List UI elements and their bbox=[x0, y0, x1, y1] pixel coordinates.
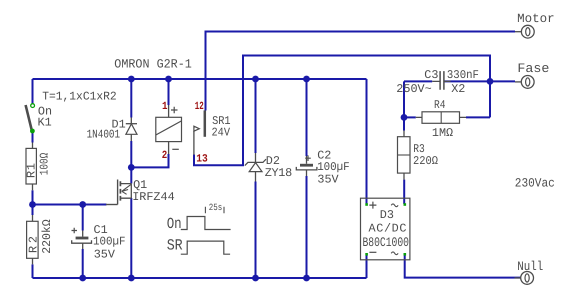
wire R4 node down to R3 top bbox=[403, 117, 405, 130]
svg-text:AC/DC: AC/DC bbox=[369, 221, 407, 235]
svg-text:On: On bbox=[167, 215, 182, 233]
wire C3 corner down to R4 node bbox=[403, 81, 405, 117]
waveform 25s ticks bbox=[205, 207, 224, 214]
wire fase net from SR1 pin13 bbox=[194, 56, 490, 166]
wire ground bus up to D3 minus pin bbox=[366, 254, 368, 278]
svg-text:1N4001: 1N4001 bbox=[87, 128, 121, 142]
resistor R2 bbox=[27, 215, 55, 264]
wire switch K1 to R1 bbox=[32, 133, 34, 143]
pin marker D3 ac2 bbox=[404, 253, 407, 256]
wire C2 bottom branch bbox=[306, 176, 308, 278]
svg-text:K1: K1 bbox=[38, 115, 52, 129]
svg-text:35V: 35V bbox=[317, 173, 339, 187]
junction bus D1 bbox=[128, 76, 135, 83]
zener diode D2 bbox=[245, 153, 266, 182]
svg-text:B80C1000: B80C1000 bbox=[363, 235, 410, 250]
wire R4 right to riser bbox=[466, 116, 490, 118]
wire R4 node to R4 left bbox=[404, 116, 416, 118]
wire +24V bus down to D3 plus pin bbox=[366, 79, 368, 204]
pin marker D3 plus bbox=[365, 203, 368, 206]
junction fase R4 riser bbox=[487, 78, 494, 85]
relay contact SR1 bbox=[194, 110, 205, 154]
diode D1 bbox=[126, 118, 137, 142]
svg-text:T=1,1xC1xR2: T=1,1xC1xR2 bbox=[42, 90, 117, 104]
wire D1 cathode branch bbox=[130, 79, 132, 118]
switch K1 bbox=[26, 104, 35, 134]
svg-text:100Ω: 100Ω bbox=[38, 153, 52, 176]
wire D1 anode to drain node bbox=[130, 141, 132, 167]
wire drain node to relay pin2 bbox=[131, 154, 168, 167]
junction ground Q1 source bbox=[128, 275, 135, 282]
relay coil bbox=[156, 105, 182, 154]
wire C3 left to corner bbox=[404, 80, 432, 82]
junction bus D2 bbox=[252, 76, 259, 83]
junction drain node bbox=[128, 164, 135, 171]
wire node RC row to Q1 gate bbox=[33, 204, 107, 206]
junction node R1 R2 bbox=[29, 201, 36, 208]
wire R2 bottom to ground bus bbox=[32, 264, 34, 278]
svg-text:D3: D3 bbox=[380, 208, 394, 222]
svg-text:250V~: 250V~ bbox=[396, 82, 431, 96]
capacitor C2 bbox=[296, 155, 317, 176]
svg-text:35V: 35V bbox=[94, 247, 116, 261]
connector Fase bbox=[515, 76, 534, 89]
svg-text:1MΩ: 1MΩ bbox=[432, 126, 453, 140]
svg-text:2: 2 bbox=[162, 150, 168, 162]
svg-text:12: 12 bbox=[195, 101, 204, 113]
svg-text:25s: 25s bbox=[209, 202, 223, 213]
svg-text:C3: C3 bbox=[424, 68, 438, 82]
wire +24V feed to switch K1 bbox=[32, 79, 34, 104]
svg-text:OMRON G2R-1: OMRON G2R-1 bbox=[114, 58, 192, 72]
connector Motor bbox=[515, 25, 534, 38]
wire R2 top bbox=[32, 205, 34, 216]
svg-text:SR: SR bbox=[167, 237, 183, 255]
waveform SR trace bbox=[181, 241, 230, 254]
wire +24V bus bbox=[33, 78, 367, 80]
svg-text:230Vac: 230Vac bbox=[515, 176, 555, 190]
svg-text:Null: Null bbox=[517, 259, 543, 274]
svg-text:220kΩ: 220kΩ bbox=[40, 219, 54, 254]
wire C1 top branch bbox=[82, 205, 84, 231]
junction ground C1 bbox=[79, 275, 86, 282]
svg-text:220Ω: 220Ω bbox=[413, 154, 438, 168]
resistor R4 bbox=[416, 112, 466, 124]
pin marker D3 ac1 bbox=[404, 203, 407, 206]
wire ground bus bbox=[33, 277, 367, 279]
svg-text:1: 1 bbox=[162, 101, 168, 113]
wire D3 ac2 pin to Null connector bbox=[405, 254, 521, 278]
waveform On trace bbox=[181, 217, 231, 230]
svg-text:Motor: Motor bbox=[517, 12, 555, 26]
svg-text:330nF: 330nF bbox=[447, 68, 479, 82]
junction ground C2 bbox=[303, 275, 310, 282]
wire R3 bottom into D3 bbox=[403, 180, 405, 204]
wire D2 anode branch bbox=[255, 182, 257, 279]
junction ground D2 bbox=[252, 275, 259, 282]
junction node C1 gate bbox=[79, 201, 86, 208]
svg-text:ZY18: ZY18 bbox=[265, 166, 293, 180]
svg-text:R1: R1 bbox=[25, 163, 39, 178]
svg-text:IRFZ44: IRFZ44 bbox=[132, 190, 174, 204]
wire relay pin1 from bus bbox=[168, 79, 170, 105]
wire motor net from SR1 pin12 bbox=[206, 32, 516, 111]
bridge rectifier D3 bbox=[361, 198, 410, 260]
capacitor C1 bbox=[72, 228, 92, 249]
junction bus relay pin1 bbox=[165, 76, 172, 83]
resistor R3 bbox=[398, 131, 411, 180]
svg-text:R4: R4 bbox=[434, 98, 446, 112]
junction bus C2 bbox=[303, 76, 310, 83]
resistor R1 bbox=[25, 143, 52, 191]
svg-text:X2: X2 bbox=[451, 82, 465, 96]
wire Q1 source to ground bus bbox=[130, 198, 132, 278]
svg-text:13: 13 bbox=[196, 153, 208, 165]
svg-text:24V: 24V bbox=[212, 125, 231, 139]
wire R1 bottom to node RC bbox=[32, 190, 34, 204]
wire Q1 drain bbox=[130, 167, 132, 183]
svg-text:Fase: Fase bbox=[517, 61, 549, 76]
svg-text:100µF: 100µF bbox=[93, 234, 126, 248]
connector Null bbox=[515, 272, 534, 285]
pin marker D3 minus bbox=[365, 253, 368, 256]
wire D2 cathode branch bbox=[255, 79, 257, 153]
capacitor C3 bbox=[432, 71, 450, 90]
wire fase horizontal to connector bbox=[444, 80, 515, 82]
junction C3 R4 R3 node bbox=[401, 114, 408, 121]
wire C2 top branch bbox=[306, 79, 308, 156]
wire C1 bottom branch bbox=[82, 249, 84, 278]
transistor Q1 bbox=[106, 180, 131, 205]
